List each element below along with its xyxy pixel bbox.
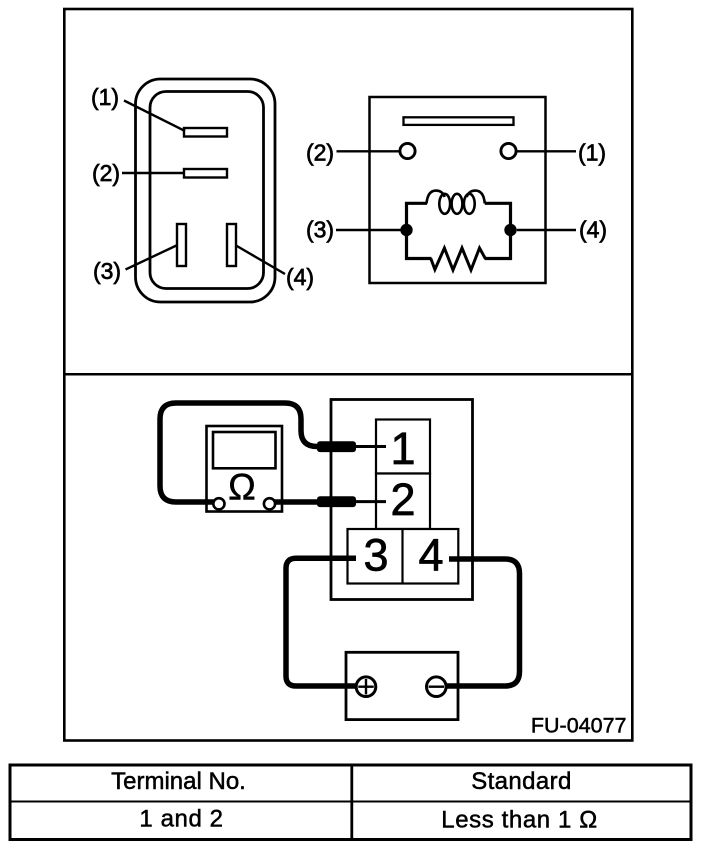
svg-text:(2): (2): [306, 140, 334, 166]
battery wire from terminal 4: [444, 559, 520, 686]
resistor R1 zigzag: [431, 248, 486, 270]
battery minus terminal: [427, 677, 447, 697]
battery plus terminal: [356, 677, 376, 697]
coil L1 left arc: [427, 191, 445, 204]
svg-text:(4): (4): [579, 217, 607, 243]
svg-text:1: 1: [390, 423, 415, 474]
cells terminal 3-4 row: [348, 529, 459, 584]
node dot 3: [400, 224, 412, 236]
leader line (4): [236, 246, 285, 275]
figure border frame: [64, 9, 632, 741]
relay schematic box: [370, 97, 546, 283]
svg-text:2: 2: [390, 474, 415, 525]
probe tip 1 thin line: [350, 445, 386, 448]
ohmmeter wire to terminal 1: [160, 403, 320, 502]
connector inner shell: [150, 92, 264, 289]
svg-text:(4): (4): [286, 264, 314, 290]
battery wire from terminal 3: [286, 558, 358, 686]
lead line (4) schematic: [517, 229, 576, 231]
battery body: [346, 652, 458, 719]
mounting bar: [404, 117, 514, 125]
coil L1 right arc: [467, 191, 485, 204]
svg-text:4: 4: [418, 530, 443, 581]
probe body 2: [317, 496, 356, 507]
connector outer shell: [136, 79, 276, 302]
section divider line: [65, 373, 631, 376]
svg-text:Standard: Standard: [471, 768, 572, 795]
probe body 1: [317, 441, 356, 452]
terminal slot 3: [177, 224, 186, 266]
leader line (2): [122, 172, 184, 175]
svg-text:(2): (2): [92, 160, 120, 186]
terminal slot 2: [184, 169, 227, 178]
meter terminal circle right: [264, 498, 275, 509]
svg-text:FU-04077: FU-04077: [531, 714, 627, 738]
node dot 4: [504, 224, 516, 236]
svg-text:(3): (3): [93, 258, 121, 284]
terminal slot 1: [184, 128, 227, 137]
coil-resistor loop left side: [407, 203, 432, 258]
svg-text:Terminal No.: Terminal No.: [111, 768, 246, 795]
terminal slot 4: [227, 224, 236, 266]
meter terminal circle left: [213, 498, 224, 509]
svg-text:Ω: Ω: [228, 467, 256, 508]
ohmmeter display: [213, 432, 276, 468]
svg-text:1 and 2: 1 and 2: [139, 806, 223, 833]
probe tip 2 thin line: [350, 500, 386, 503]
lead line (2) schematic: [337, 150, 401, 152]
lead line (1) schematic: [516, 150, 576, 152]
leader line (3): [126, 245, 178, 270]
table outer border: [10, 765, 691, 840]
svg-text:(1): (1): [91, 84, 119, 110]
svg-text:Less than 1 Ω: Less than 1 Ω: [441, 807, 598, 834]
svg-text:3: 3: [363, 530, 388, 581]
ohmmeter body: [207, 426, 283, 512]
svg-text:(1): (1): [578, 140, 606, 166]
svg-text:(3): (3): [306, 217, 334, 243]
lead line (3) schematic: [336, 229, 401, 231]
coil L1 turn 2: [452, 194, 463, 214]
ohmmeter wire to terminal 2: [267, 499, 320, 505]
terminal circle 1: [501, 143, 516, 158]
cell terminal 2: [376, 474, 430, 530]
cell divider 3|4: [401, 529, 403, 584]
table column divider: [350, 765, 353, 840]
leader line (1): [124, 101, 185, 132]
table row divider: [10, 801, 691, 803]
relay connector box (test): [331, 400, 473, 600]
terminal circle 2: [400, 143, 415, 158]
coil L1 turn 3: [464, 194, 475, 214]
coil-resistor loop right side: [485, 203, 511, 258]
coil L1 turn 1: [439, 194, 450, 214]
cell terminal 1: [376, 420, 430, 474]
